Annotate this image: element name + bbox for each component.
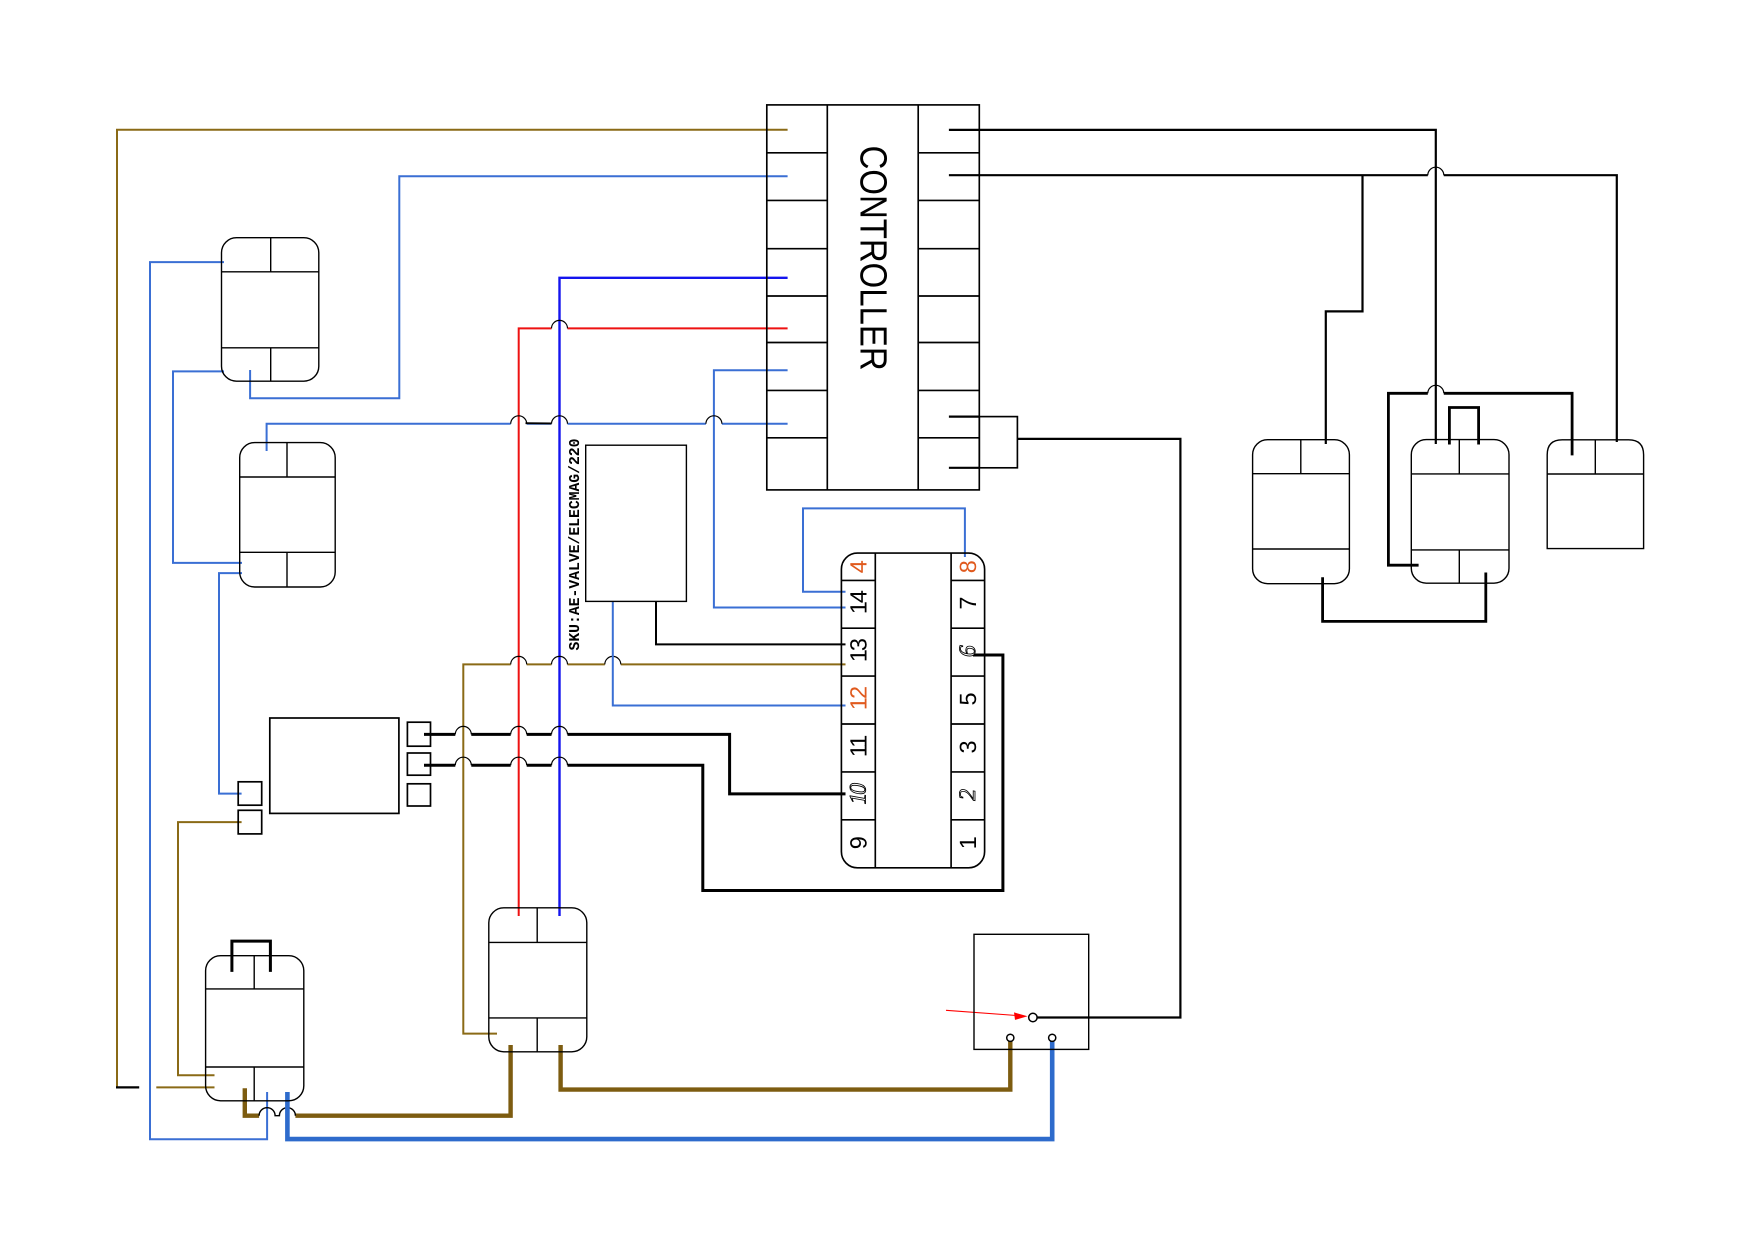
relay K1 right terminal T3	[407, 784, 430, 806]
valve VA dividers	[1253, 473, 1350, 475]
svg-text:10: 10	[845, 783, 871, 805]
wire W21 black: valve VB bottom-left cell loop to valve VC top-left	[1388, 393, 1572, 565]
controller U1 left pin row lines	[767, 153, 828, 438]
hop arc on W4 over W3	[552, 320, 568, 328]
terminal block TB1 body	[841, 553, 984, 868]
svg-text:9: 9	[845, 836, 871, 849]
svg-text:8: 8	[955, 560, 981, 573]
svg-text:3: 3	[955, 740, 981, 753]
wire W6 blue: valve V2 top pin to controller pin L7	[267, 424, 788, 451]
wire W25 thick brown: valve V3 bottom pin to valve V4 bottom-left pin	[245, 1045, 511, 1116]
valve VC dividers	[1547, 473, 1643, 475]
TEXT	[567, 146, 981, 850]
terminal block TB1 right row lines	[951, 580, 985, 819]
valve VB top staple	[1449, 408, 1478, 445]
controller U1 right pin column	[917, 105, 919, 490]
wire W10 brown: relay K1 terminal A2 to valve V3 left-bottom cell	[178, 822, 242, 1075]
wire W18 black: controller pin R2 to valve VC top-right	[949, 175, 1617, 442]
wire W14 blue: terminal 14 loop to terminal 8	[803, 508, 965, 591]
svg-text:12: 12	[845, 687, 871, 710]
wire W1 brown tail into valve V3	[156, 1086, 214, 1088]
wire W2 blue: valve V1 bottom pin to controller pin L2	[250, 176, 788, 398]
svg-text:13: 13	[845, 638, 871, 662]
wire W3 dark blue: controller pin L4 down to valve V4 top right	[560, 278, 788, 916]
wire W16 thick black: relay K1 T2 to terminal 6	[424, 655, 1003, 891]
wire W9 blue: valve V2 bottom-left cell to relay K1 terminal A1	[219, 573, 242, 794]
wire W17 black: controller pin R1 to valve VB top-left	[949, 130, 1436, 444]
svg-text:1: 1	[955, 836, 981, 849]
switch S1 red arrow	[946, 1010, 1017, 1015]
controller U1 body	[767, 105, 980, 490]
SKU label box	[586, 445, 687, 601]
relay K1 left terminal A2	[238, 810, 262, 834]
relay K1 left terminal A1	[238, 782, 262, 805]
wire W26 thick brown: valve V4 bottom-right pin to switch S1 brown terminal	[561, 1041, 1011, 1089]
valve VB (top right middle) body	[1411, 440, 1509, 584]
switch S1 terminal circle brown	[1007, 1034, 1014, 1041]
wire W4 red: controller pin L5 to valve V4 top left	[519, 328, 788, 916]
valve V1 dividers	[222, 271, 319, 273]
svg-text:CONTROLLER: CONTROLLER	[852, 146, 894, 371]
terminal block TB1 left row lines	[841, 580, 875, 819]
valve V4 dividers	[489, 941, 587, 943]
valve V2 dividers	[240, 476, 336, 478]
relay K1 body	[270, 718, 399, 813]
wire W6 black artifact segment between hops	[526, 422, 552, 424]
switch S1 body	[974, 934, 1089, 1049]
wire stub controller R8	[949, 467, 979, 469]
hop arcs on W6 over red, dark blue, blue verticals	[511, 416, 722, 424]
wire W15 thick black: relay K1 T1 to terminal 10	[424, 734, 846, 794]
hop arc on W18 over W17 vertical	[1428, 167, 1444, 175]
hop arc on W21 over W17 vertical	[1428, 385, 1444, 393]
svg-text:7: 7	[955, 597, 981, 610]
hop arcs on W11 over blue, dark blue, red verticals	[511, 656, 621, 664]
wire W12 black: SKU box to terminal 13	[656, 601, 846, 644]
valve V2 (mid left) body	[240, 443, 336, 587]
wire W11 brown: terminal 13 to valve V4 bottom-left cell	[463, 664, 845, 1033]
valve V3 (bottom left) body	[206, 956, 304, 1101]
controller U1 output box (right bottom)	[979, 417, 1017, 468]
terminal block TB1 left column line	[874, 553, 876, 868]
wire W1 brown: controller pin L1 to valve V3 (left run)	[117, 130, 788, 1088]
wire W27 thick blue: switch S1 blue terminal to valve V3 bottom-right pin	[287, 1041, 1052, 1139]
wire W20 black: valve VA bottom pin to valve VB bottom-right pin	[1323, 573, 1486, 622]
svg-text:14: 14	[845, 590, 871, 614]
valve V3 dividers	[206, 988, 304, 990]
controller U1 right pin row lines	[918, 153, 979, 438]
switch S1 pivot contact circle	[1029, 1013, 1037, 1021]
valve V1 (top left) body	[222, 238, 319, 382]
switch S1 terminal circle blue	[1049, 1034, 1056, 1041]
relay K1 right terminal T1	[407, 722, 430, 746]
wire W1 black elbow segment at bottom left	[116, 1086, 139, 1088]
svg-text:6: 6	[955, 645, 981, 657]
wire W8 blue: valve V1 bottom-left stub to valve V2 bottom-left cell	[173, 371, 242, 563]
svg-text:5: 5	[955, 692, 981, 705]
wire W19 black: branch from W18 down to valve VA top-right	[1326, 175, 1363, 444]
valve V3 top staple	[232, 941, 271, 972]
svg-text:4: 4	[845, 560, 871, 573]
terminal block TB1 right column line	[950, 553, 952, 868]
svg-text:11: 11	[845, 736, 871, 757]
valve VA (top right left) body	[1253, 440, 1350, 584]
wire W13 blue: SKU box to terminal 12	[613, 601, 846, 705]
hop arcs on W15	[455, 726, 567, 734]
valve V4 (bottom center) body	[489, 908, 587, 1052]
svg-text:2: 2	[955, 789, 981, 801]
valve VC (top right right) body	[1547, 440, 1643, 549]
svg-text:SKU:AE-VALVE/ELECMAG/220: SKU:AE-VALVE/ELECMAG/220	[567, 439, 584, 651]
wire W5 blue: controller pin L6 down to terminal 14	[714, 370, 846, 607]
valve VB dividers	[1411, 473, 1509, 475]
wire W7 blue: valve V1 top-left stub down to valve V3 bottom-right pin	[150, 262, 267, 1139]
controller U1 left pin column	[826, 105, 828, 490]
wire stub controller R7	[949, 416, 979, 418]
wire W24 black: switch S1 pivot to controller output box	[1017, 439, 1180, 1018]
hop arcs on W16	[455, 757, 567, 765]
relay K1 right terminal T2	[407, 753, 430, 775]
hop arcs on W25 over blue verticals	[259, 1108, 295, 1116]
